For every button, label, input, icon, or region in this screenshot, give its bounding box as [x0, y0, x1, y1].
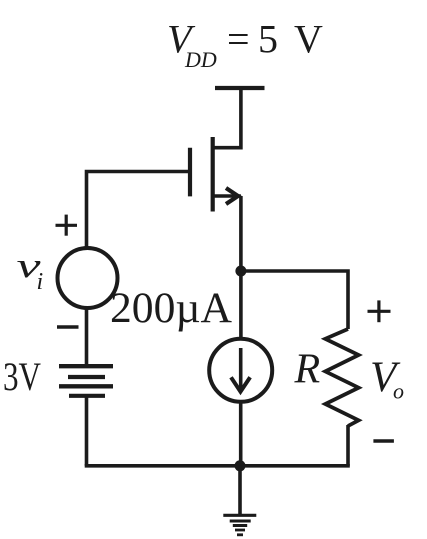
label vi — [17, 246, 44, 295]
wire battery to bottom rail — [85, 396, 89, 466]
transistor M1 gate bar — [188, 148, 192, 197]
wire resistor to bottom rail — [346, 425, 350, 466]
ground line 1 — [223, 514, 256, 517]
node B junction dot — [235, 460, 246, 471]
svg-text:200µA: 200µA — [110, 285, 232, 332]
svg-text:R: R — [294, 347, 321, 393]
ground line 5 — [237, 533, 243, 536]
battery 3V plate long — [59, 384, 113, 388]
wire source down to node A — [239, 196, 243, 339]
current source I1 arrowhead — [231, 377, 250, 391]
ground line 3 — [233, 524, 247, 527]
node A junction dot — [235, 266, 246, 277]
minus sign Vo — [373, 439, 394, 442]
svg-text:V: V — [294, 17, 323, 62]
svg-text:3V: 3V — [3, 354, 41, 399]
label VDD = 5 V — [167, 17, 323, 73]
resistor R zigzag — [325, 329, 358, 426]
power VDD bar — [215, 86, 265, 90]
transistor M1 source lead — [213, 194, 241, 198]
wire VDD bar to drain — [213, 88, 241, 148]
svg-text:=: = — [227, 17, 250, 62]
svg-text:5: 5 — [258, 17, 278, 62]
current source I1 circle — [209, 339, 272, 402]
label Vo — [370, 354, 404, 404]
minus sign vi — [57, 325, 79, 328]
svg-text:i: i — [37, 269, 44, 295]
wire gate lead and left branch down to vi source — [87, 172, 189, 249]
plus sign vi — [56, 215, 78, 236]
battery 3V plate short — [68, 375, 105, 379]
wire vi to battery — [85, 308, 89, 366]
battery 3V plate long top — [59, 364, 113, 368]
svg-text:o: o — [393, 379, 404, 404]
svg-text:DD: DD — [184, 47, 217, 72]
wire node B to ground — [238, 466, 242, 515]
ground line 4 — [235, 529, 245, 532]
ground line 2 — [230, 520, 251, 523]
source vi circle — [58, 248, 118, 308]
wire current source to bottom rail — [239, 402, 243, 466]
bottom rail wire — [85, 464, 350, 468]
transistor M1 source arrow — [226, 188, 238, 204]
current source I1 arrow shaft — [239, 348, 243, 388]
transistor M1 channel — [211, 137, 215, 212]
plus sign Vo — [368, 300, 391, 322]
battery 3V plate short bottom — [69, 394, 105, 398]
wire node A to resistor branch — [241, 271, 348, 329]
